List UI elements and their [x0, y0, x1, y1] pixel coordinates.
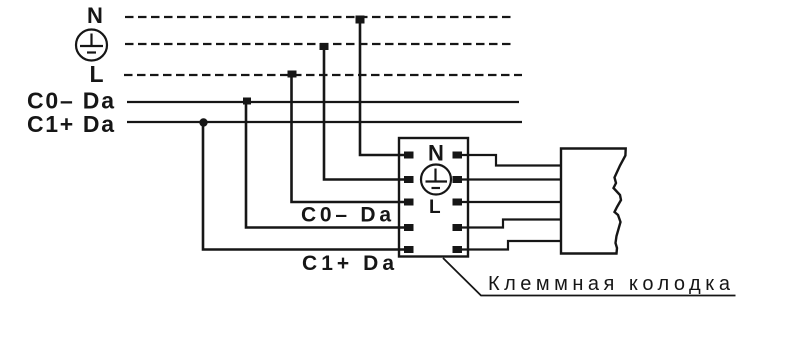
terminal 1 right pad [453, 152, 463, 159]
svg-text:C0– Da: C0– Da [27, 88, 114, 114]
wire N bus (dashed) [125, 16, 511, 18]
wire terminal 5 to device [460, 241, 561, 250]
terminal 4 right pad [453, 224, 463, 231]
wire L bus (dashed) [124, 74, 522, 76]
junction on C1 bus [199, 118, 207, 126]
leader line to label [443, 258, 736, 296]
wire C1 bus (solid) [127, 121, 522, 123]
terminal 5 left pad [404, 246, 414, 253]
svg-text:N: N [87, 3, 103, 28]
wire PE bus (dashed) [125, 43, 515, 45]
terminal 1 left pad [404, 152, 414, 159]
wire drop from N bus to terminal 1 [360, 17, 406, 155]
svg-text:L: L [429, 197, 441, 218]
ground (protective earth symbol, top left) [76, 30, 107, 61]
wire terminal 1 to device [460, 155, 561, 166]
wire terminal 3 to device [460, 201, 561, 203]
wire C0 bus (solid) [127, 101, 519, 103]
wire terminal 2 to device [460, 178, 561, 180]
terminal 4 left pad [404, 224, 414, 231]
svg-text:N: N [428, 141, 444, 166]
svg-text:L: L [90, 61, 104, 87]
terminal 2 right pad [453, 176, 463, 183]
wire drop from C1 bus to terminal 5 [203, 122, 406, 250]
terminal 3 right pad [453, 199, 463, 206]
junction on N bus [356, 16, 365, 24]
svg-text:Клеммная колодка: Клеммная колодка [488, 273, 731, 295]
wire drop from PE bus to terminal 2 [324, 44, 406, 180]
junction on L bus [288, 71, 297, 78]
wire drop from C0 bus to terminal 4 [246, 102, 406, 228]
terminal 2 left pad [404, 176, 414, 183]
junction on PE bus [320, 43, 329, 50]
wire terminal 4 to device [460, 220, 561, 228]
wire drop from L bus to terminal 3 [292, 75, 407, 202]
terminal 3 left pad [404, 199, 414, 206]
device (partial outline with broken edge) [561, 149, 626, 254]
terminal 5 right pad [453, 246, 463, 253]
junction on C0 bus [243, 98, 251, 105]
terminal block body [399, 138, 468, 257]
ground (protective earth symbol inside block) [421, 165, 451, 195]
svg-text:C1+ Da: C1+ Da [27, 111, 114, 137]
